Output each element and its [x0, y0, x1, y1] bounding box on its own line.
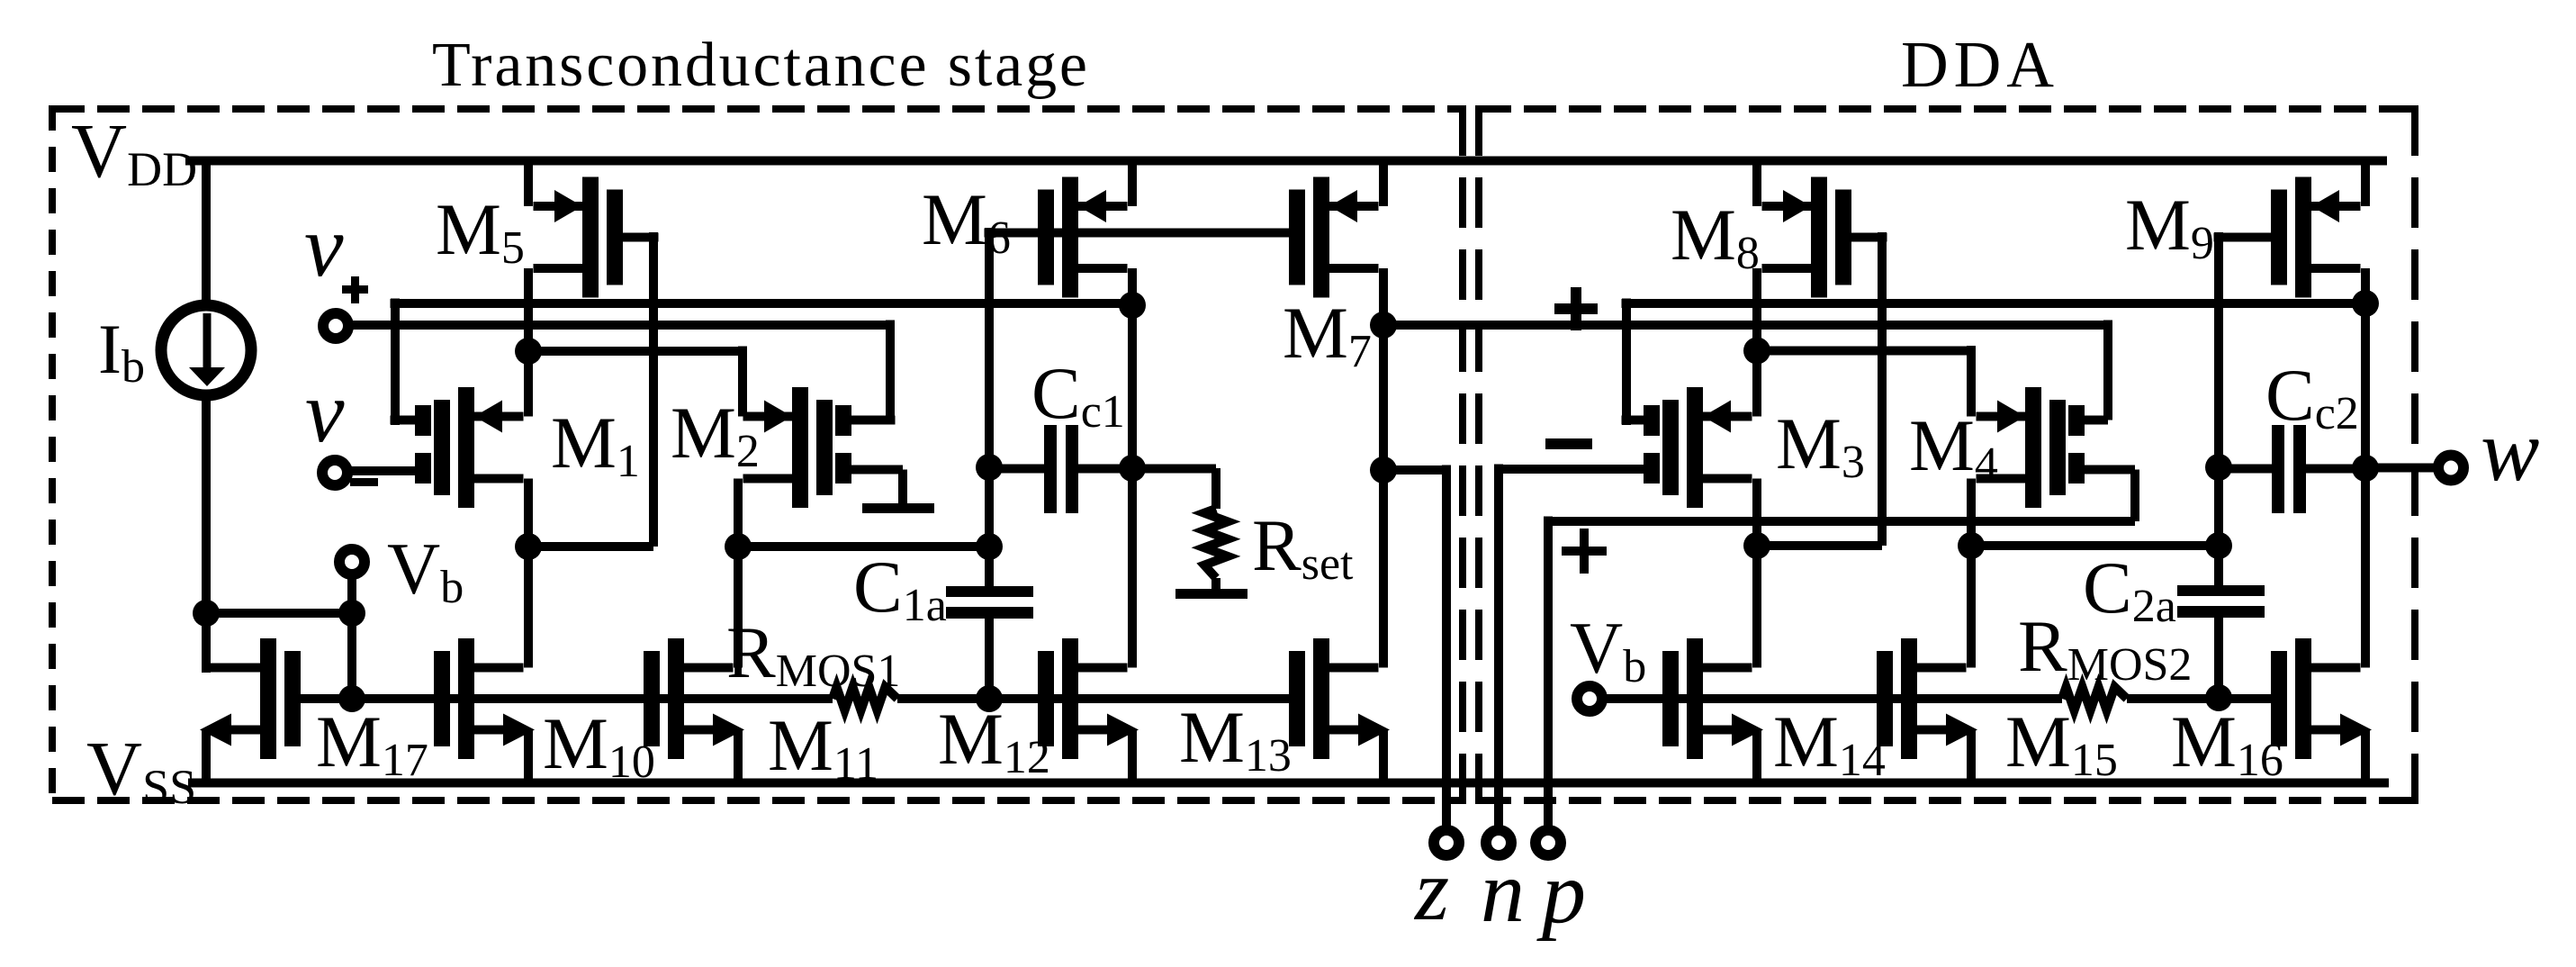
svg-text:VDD: VDD	[71, 107, 197, 196]
transistor M14	[1687, 638, 1703, 759]
terminal w	[2438, 456, 2463, 481]
svg-text:C2a: C2a	[2083, 547, 2176, 632]
svg-text:p: p	[1536, 845, 1586, 942]
wire M2 bottom stub to ground	[851, 465, 903, 474]
wire M8 gate	[1851, 233, 1887, 242]
transistor M11	[668, 638, 684, 759]
wire v+ to M2 gate	[344, 321, 890, 330]
wire Ib down to M17 drain	[202, 613, 211, 673]
resistor RMOS2	[2062, 687, 2127, 710]
svg-text:M7: M7	[1283, 292, 1372, 377]
wire C2a to gate line	[2214, 618, 2223, 699]
node M8 drain junction	[1743, 338, 1770, 365]
transistor M2	[792, 387, 808, 508]
node junction Ib-M17	[193, 600, 220, 627]
transistor M15	[1901, 638, 1917, 759]
svg-text:Vb: Vb	[387, 528, 464, 613]
transistor M12	[1062, 638, 1078, 759]
wire M5 gate down to tail	[649, 232, 658, 547]
wire n horizontal to M3 bottom stub	[1499, 465, 1644, 474]
node Cc2 left junction	[2205, 454, 2232, 481]
wire M15 source to VSS	[1967, 729, 1976, 782]
wire z node	[1379, 465, 1447, 474]
node C2a gate line junction	[2205, 684, 2232, 711]
transistor M8	[1811, 177, 1827, 298]
svg-text:Vb: Vb	[1570, 607, 1646, 692]
wire M5 drain node to M2	[524, 347, 743, 356]
wire M6 drain down to M12	[1128, 268, 1137, 668]
node M9 drain junction	[2352, 290, 2379, 317]
wire M4 source down	[1967, 479, 1976, 547]
VSS rail	[188, 779, 2389, 788]
svg-text:M9: M9	[2125, 184, 2214, 269]
node M3 source junction	[1743, 532, 1770, 559]
capacitor Cc1	[1044, 425, 1057, 513]
wire n down	[1494, 465, 1503, 833]
gate line RMOS2 to M16	[2127, 694, 2271, 703]
transistor M5	[582, 177, 599, 298]
wire w output	[2371, 464, 2442, 473]
wire tail M4 to C2a node	[1967, 541, 2220, 550]
wire Ib to Vb node	[203, 609, 357, 618]
wire C1a to gate line	[985, 618, 994, 699]
wire M7 source to VDD	[1379, 160, 1388, 206]
svg-text:v: v	[304, 198, 344, 295]
transistor M13	[1313, 638, 1329, 759]
VDD rail	[185, 157, 2387, 166]
node M7 drain junction	[1370, 312, 1397, 339]
transistor M1	[458, 387, 474, 508]
wire M9 gate down to C2a	[2214, 232, 2223, 588]
wire M13 source to VSS	[1379, 729, 1388, 782]
node M5 drain junction	[515, 338, 542, 365]
plus sign DDA upper	[1554, 303, 1598, 314]
wire tail M1	[524, 542, 654, 551]
svg-text:M15: M15	[2005, 700, 2118, 786]
node Cc2 right junction	[2352, 455, 2379, 482]
transistor M10	[458, 638, 474, 759]
wire M12 source to VSS	[1128, 729, 1137, 782]
gate line M10 M11	[347, 694, 833, 703]
wire M13 drain up to z node	[1379, 325, 1388, 668]
wire v- to M1 gate	[346, 466, 415, 475]
wire M9 drain down to M16	[2361, 268, 2370, 668]
node Cc1 left junction	[976, 454, 1003, 481]
svg-text:w: w	[2481, 402, 2539, 500]
transistor M17 gate wire	[301, 694, 357, 703]
wire M17 source to VSS	[202, 729, 211, 782]
wire M5 source to VDD	[524, 160, 533, 206]
transistor M4	[2025, 387, 2041, 508]
wire M9 source to VDD	[2361, 160, 2370, 206]
minus sign DDA	[1545, 438, 1592, 449]
wire tail M3	[1752, 541, 1883, 550]
transistor M17	[260, 638, 276, 759]
capacitor Cc2	[2272, 425, 2284, 513]
line M1 stub to M6 drain node	[391, 299, 1133, 308]
current source Ib	[202, 160, 211, 306]
wire M8 source to VDD	[1752, 160, 1761, 206]
gate line M6 M7	[985, 229, 1290, 238]
wire p horizontal	[1544, 517, 2135, 526]
wire down to M4 source lead	[1967, 346, 1976, 417]
ground under Rset	[1211, 578, 1220, 590]
wire M3 drain up	[1752, 351, 1761, 417]
wire p down	[1544, 517, 1553, 833]
resistor Rset	[1204, 509, 1228, 578]
wire Vb down	[347, 576, 356, 699]
node junction Vb wire	[338, 600, 365, 627]
wire z down	[1442, 465, 1451, 833]
terminal v-	[322, 460, 347, 485]
wire M1 drain up	[524, 351, 533, 417]
svg-text:Transconductance stage: Transconductance stage	[432, 31, 1087, 100]
wire up to M4 bottom stub	[2130, 470, 2139, 522]
wire down to M4 top stub	[2103, 321, 2112, 420]
gate line RMOS1 to M13	[897, 694, 1289, 703]
wire M9 gate	[2214, 233, 2272, 242]
node C1a tail junction	[976, 533, 1003, 560]
wire M1 source down	[524, 479, 533, 547]
transistor M16	[2295, 638, 2311, 759]
terminal n	[1486, 830, 1511, 855]
wire M3 source down	[1752, 479, 1761, 547]
wire M8 drain down	[1752, 268, 1761, 351]
wire M6 source to VDD	[1128, 160, 1137, 206]
svg-text:v: v	[305, 364, 345, 461]
node Cc1 right junction	[1119, 455, 1146, 482]
wire M4 source to M15 drain	[1967, 546, 1976, 668]
wire M3 source to M14 drain	[1752, 546, 1761, 668]
wire M2 source down	[734, 479, 743, 547]
wire tail M2 to C1a node	[734, 542, 990, 551]
line M3 stub to M9 drain node	[1622, 299, 2366, 308]
wire M16 source to VSS	[2361, 729, 2370, 782]
wire M1 stub up	[391, 299, 400, 426]
node M4 source junction	[1958, 532, 1985, 559]
svg-text:M14: M14	[1773, 700, 1886, 786]
wire M7 drain down	[1379, 268, 1388, 325]
wire M5 gate	[623, 233, 659, 242]
transistor M3	[1687, 387, 1703, 508]
ground under M2	[862, 503, 934, 513]
wire to Rset	[1138, 465, 1217, 474]
wire M1 source down to M10	[524, 547, 533, 668]
wire M10 source to VSS	[524, 729, 533, 782]
wire M14 source to VSS	[1752, 729, 1761, 782]
svg-text:n: n	[1481, 844, 1525, 941]
svg-text:Ib: Ib	[98, 310, 145, 393]
node M1 source junction	[515, 533, 542, 560]
svg-text:DDA: DDA	[1901, 28, 2054, 101]
wire M3 top stub	[1622, 416, 1644, 425]
svg-text:C1a: C1a	[853, 546, 947, 631]
svg-text:Cc2: Cc2	[2265, 354, 2359, 439]
svg-text:M10: M10	[543, 702, 655, 788]
terminal Vb	[339, 549, 365, 574]
wire M8 drain node to M4	[1752, 347, 1972, 356]
transistor M6	[1062, 177, 1078, 298]
svg-text:M17: M17	[316, 700, 428, 786]
svg-text:Rset: Rset	[1252, 504, 1354, 590]
wire M8 gate down to tail	[1878, 232, 1887, 546]
node M6 drain junction	[1119, 292, 1146, 319]
plus sign DDA lower	[1562, 547, 1607, 556]
node M2 source junction	[725, 533, 752, 560]
svg-text:z: z	[1413, 842, 1449, 939]
node C1a gate line junction	[976, 685, 1003, 712]
capacitor C1a	[946, 586, 1033, 597]
gate line M14 M15	[1599, 694, 2062, 703]
wire M11 source to VSS	[734, 729, 743, 782]
capacitor C2a	[2177, 585, 2265, 596]
wire M1 top stub	[391, 416, 416, 425]
dashed box: DDA	[1479, 105, 2415, 113]
node junction Vb gate line	[338, 685, 365, 712]
node C2a tail junction	[2205, 532, 2232, 559]
terminal Vb DDA	[1577, 686, 1602, 711]
svg-text:M3: M3	[1776, 402, 1865, 488]
wire M2 source to M11 drain	[734, 547, 743, 668]
terminal p	[1536, 830, 1561, 855]
wire M2 top stub	[851, 416, 896, 425]
dashed box: Transconductance stage	[52, 105, 1463, 113]
wire M3 stub up	[1622, 299, 1631, 426]
wire M7 drain to DDA + input	[1379, 321, 2109, 330]
terminal z	[1434, 830, 1459, 855]
node z junction	[1370, 456, 1397, 483]
terminal v+	[323, 313, 348, 339]
wire down to M2 source lead	[738, 347, 747, 417]
wire M5 drain down	[524, 268, 533, 351]
svg-text:Cc1: Cc1	[1031, 352, 1125, 438]
svg-text:M1: M1	[551, 402, 640, 487]
transistor M7	[1313, 177, 1329, 298]
svg-text:M5: M5	[436, 188, 525, 274]
svg-text:M8: M8	[1671, 194, 1760, 279]
svg-text:M6: M6	[922, 178, 1011, 264]
wire gate line down to C1a	[985, 228, 994, 588]
svg-text:M16: M16	[2171, 700, 2283, 786]
svg-text:VSS: VSS	[86, 725, 196, 814]
resistor RMOS1	[833, 687, 897, 710]
svg-text:M13: M13	[1179, 696, 1292, 782]
transistor M9	[2295, 177, 2311, 298]
